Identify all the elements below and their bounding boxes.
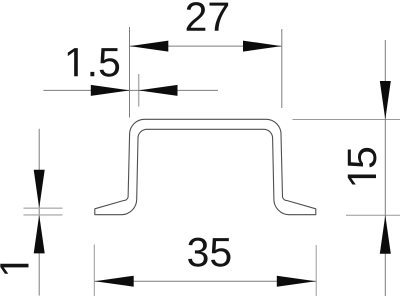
dim 27: right extension line (281, 29, 283, 108)
dim 35: dimension line (94, 280, 316, 282)
dim 35: left arrowhead (95, 276, 134, 287)
dim 1: lower gray extension line (24, 214, 63, 216)
dim 15: bottom extension line (346, 214, 400, 216)
dim 35: label (188, 238, 230, 267)
dim 35: left extension line (93, 245, 95, 297)
dim 1: upper gray extension line (24, 207, 63, 209)
dim 27: left extension line (129, 27, 131, 118)
dim 1.5: right-pointing arrowhead (91, 85, 130, 96)
dim 1.5: left-pointing arrowhead (139, 85, 178, 96)
hat profile outline (95, 119, 316, 214)
dim 27: left arrowhead (130, 41, 169, 52)
dim 1.5: gray inner extension line (138, 74, 140, 107)
dim 1.5: label (68, 48, 119, 77)
dim 35: right extension line (315, 245, 317, 296)
dim 27: label (187, 2, 228, 31)
dim 1: lower arrowhead (up) (34, 215, 45, 254)
dim 27: dimension line (130, 45, 282, 47)
dim 15: top extension line (293, 119, 400, 121)
dim 1: upper arrowhead (down) (34, 170, 45, 209)
dim 1: label (rotated) (0, 264, 28, 274)
dim 1.5: dimension line with tails (43, 89, 218, 91)
dim 15: dimension line (384, 40, 386, 296)
dim 15: bottom arrowhead (380, 215, 391, 254)
dim 15: top arrowhead (380, 81, 391, 120)
dim 1: dimension line (38, 129, 40, 296)
dim 15: label (rotated) (348, 148, 377, 167)
dim 27: right arrowhead (243, 41, 282, 52)
dim 35: right arrowhead (277, 276, 316, 287)
